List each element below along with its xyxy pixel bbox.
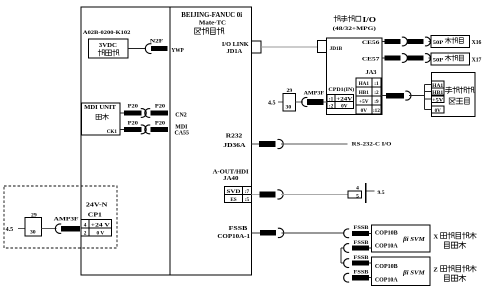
label BEIJING-FANUC 0i xyxy=(181,11,242,19)
wire JA40 run xyxy=(281,193,348,195)
wire JA3 to MPG xyxy=(409,95,425,97)
svg-text:A-OUT/HDI: A-OUT/HDI xyxy=(213,170,250,176)
port A-OUT/HDI label xyxy=(213,170,250,176)
port JA3 label xyxy=(366,70,377,76)
cable CE56 plug B xyxy=(407,39,423,44)
port FSSB label xyxy=(229,226,248,232)
wire FSSB stub xyxy=(252,232,261,234)
svg-text:HB1: HB1 xyxy=(359,90,369,96)
cable CE57 socket A xyxy=(402,54,407,63)
svg-text:P20: P20 xyxy=(128,103,139,109)
svg-text:CE56: CE56 xyxy=(362,40,380,46)
cable P20 row1 plug B xyxy=(151,111,168,116)
svg-text:CN2: CN2 xyxy=(175,113,187,119)
connector N2F plug xyxy=(151,46,168,51)
port CE56 label xyxy=(362,40,380,46)
wire 4.5 to ref box xyxy=(18,228,25,230)
wire Z-COP10B stub xyxy=(369,262,371,264)
cable JA40 plug xyxy=(260,192,276,198)
svg-text:YWP: YWP xyxy=(171,48,184,54)
cable R232 plug xyxy=(259,141,276,147)
50P breakout box X16 xyxy=(431,36,470,48)
port CPD1 pin table xyxy=(327,94,354,109)
cable CE56 socket A xyxy=(402,37,407,46)
svg-text::2: :2 xyxy=(329,103,334,109)
MPG pin 0V xyxy=(431,106,444,114)
svg-text:3VDC: 3VDC xyxy=(99,42,117,49)
cable CE57 plug A xyxy=(384,55,400,60)
label CNC system (CJK) xyxy=(195,28,224,35)
label 24V-N xyxy=(86,203,109,209)
svg-text:FSSB: FSSB xyxy=(354,256,370,261)
svg-text:+24V: +24V xyxy=(336,96,352,102)
svg-text:FSSB: FSSB xyxy=(354,241,370,246)
port R232 label xyxy=(226,133,243,139)
port I/O LINK label xyxy=(222,42,249,48)
svg-text:CPD1(IN): CPD1(IN) xyxy=(328,86,354,93)
cable JA3 plug xyxy=(386,93,404,99)
svg-text:P20: P20 xyxy=(155,120,166,126)
cable CE56 plug A xyxy=(384,39,400,44)
wire FSSB run xyxy=(282,232,345,234)
cable row1 socket arcs xyxy=(141,109,150,118)
wire JA3 stub xyxy=(381,95,386,97)
svg-text:5: 5 xyxy=(356,193,359,199)
port MDI label xyxy=(175,125,188,131)
svg-text:30: 30 xyxy=(286,104,292,110)
port JD36A label xyxy=(223,143,246,149)
svg-text:I/O: I/O xyxy=(363,17,377,24)
label 30 xyxy=(30,230,36,236)
svg-text:Mate-TC: Mate-TC xyxy=(199,20,226,27)
MPG unit box xyxy=(431,73,475,117)
label 4 xyxy=(356,186,359,192)
servo amp X box xyxy=(371,225,430,252)
svg-text:AMP3F: AMP3F xyxy=(304,90,325,96)
svg-text:50P: 50P xyxy=(433,58,444,64)
port JA3 pin table xyxy=(356,78,381,114)
wire ref box to AMP3F xyxy=(42,228,57,230)
label P20 row2 left xyxy=(128,120,139,126)
svg-text:CK1: CK1 xyxy=(107,129,117,135)
svg-text::5: :5 xyxy=(245,197,250,203)
svg-text:CA55: CA55 xyxy=(175,131,189,137)
wire X-COP10B stub xyxy=(369,232,371,234)
servo amp Z box xyxy=(371,257,430,285)
svg-text:CE57: CE57 xyxy=(362,56,380,62)
wire CE57 stub xyxy=(382,57,385,59)
label 29 xyxy=(31,212,37,218)
cable FSSB X-COP10A plug xyxy=(352,245,369,250)
svg-text:βi SVM: βi SVM xyxy=(402,270,425,277)
svg-text:I/O LINK: I/O LINK xyxy=(222,42,249,48)
cable FSSB plug (main) xyxy=(260,230,276,236)
label COP10A (X) xyxy=(375,244,399,250)
svg-text:CP1: CP1 xyxy=(88,212,102,218)
label X amp unit (CJK) xyxy=(444,242,465,249)
label CP1 xyxy=(88,212,102,218)
MPG pin +5V xyxy=(431,96,444,104)
svg-text::2: :2 xyxy=(374,90,379,96)
label COP10B (X) xyxy=(375,230,398,236)
off-sheet ref box 29/30 xyxy=(25,218,41,237)
svg-text:AMP3F: AMP3F xyxy=(54,217,80,223)
wire ref box to AMP3F (CPD1) xyxy=(296,101,304,103)
wire MDI row1 stub xyxy=(120,112,124,114)
label lithium battery (CJK) xyxy=(98,50,119,56)
connector N2F socket arc xyxy=(145,44,151,54)
svg-text::12: :12 xyxy=(373,108,380,114)
svg-text:24V-N: 24V-N xyxy=(86,203,109,209)
cable JA3 socket xyxy=(405,91,411,100)
label P20 row1 left xyxy=(128,103,139,109)
port JD1A label xyxy=(227,49,244,55)
wire battery to N2F xyxy=(128,47,146,49)
wire I/O LINK bus xyxy=(261,46,318,48)
label FSSB (X bottom) xyxy=(354,241,370,246)
label sheet ref 4.5 (power) xyxy=(6,227,14,233)
50P breakout box X17 xyxy=(431,53,470,65)
wire ref tick xyxy=(366,190,374,192)
label X-axis servo amp (CJK) xyxy=(433,232,476,240)
label N2F xyxy=(150,39,164,45)
connector JD1A square xyxy=(252,41,262,53)
svg-text:ES: ES xyxy=(230,197,236,203)
label FSSB (Z top) xyxy=(354,256,370,261)
label Z amp unit (CJK) xyxy=(444,275,465,282)
svg-text:βi SVM: βi SVM xyxy=(402,236,425,243)
port JA40 label xyxy=(223,176,238,182)
svg-text:HB1: HB1 xyxy=(432,90,443,96)
MDI unit box xyxy=(82,103,121,135)
label AMP3F (power) xyxy=(54,217,80,223)
svg-text:0V: 0V xyxy=(361,108,368,114)
svg-text:COP10B: COP10B xyxy=(375,230,398,236)
svg-text:N2F: N2F xyxy=(150,39,164,45)
svg-text:JD36A: JD36A xyxy=(223,143,246,149)
label CK1 xyxy=(107,129,117,135)
cable FSSB Z-COP10B plug xyxy=(352,261,369,266)
svg-text:COP10B: COP10B xyxy=(375,264,398,270)
svg-text:0 V: 0 V xyxy=(96,231,104,237)
cable CE57 socket B xyxy=(425,54,430,63)
cable FSSB Z-COP10B socket xyxy=(344,259,349,268)
label FSSB (Z bottom) xyxy=(354,271,370,276)
connector AMP3F plug (power) xyxy=(61,226,80,232)
port CN2 label xyxy=(175,113,187,119)
dashed power-supply region xyxy=(4,186,117,248)
svg-text:2: 2 xyxy=(84,231,87,237)
label machine interface I/O (CJK) xyxy=(334,16,376,24)
MPG pin HB1 xyxy=(431,88,444,96)
svg-text:JA3: JA3 xyxy=(366,70,377,76)
cable P20 row2 plug B xyxy=(151,127,168,132)
label Mate-TC xyxy=(199,20,226,27)
label sheet ref 4.5 (CPD1) xyxy=(268,100,276,106)
svg-text:+5V: +5V xyxy=(432,98,443,104)
wire JA40 stub xyxy=(252,193,260,195)
label 30 (CPD1) xyxy=(286,104,292,110)
port YWP label xyxy=(171,48,184,54)
svg-text:SVD: SVD xyxy=(227,189,241,195)
cable FSSB Z-COP10A socket xyxy=(344,273,349,282)
label manual pulse (CJK) xyxy=(445,87,474,94)
cable JA40 socket xyxy=(277,190,283,199)
label unit (CJK) xyxy=(96,114,108,120)
svg-text:50P: 50P xyxy=(433,40,444,46)
port CA55 label xyxy=(175,131,189,137)
label AMP3F (CPD1) xyxy=(304,90,325,96)
connector AMP3F plug (CPD1) xyxy=(307,99,324,105)
off-sheet ref box 4/5 xyxy=(348,191,362,198)
wire CE56 stub xyxy=(382,41,385,43)
label A02B-0200-K102 xyxy=(83,30,131,36)
internal divider wire xyxy=(169,7,171,275)
MPG pin HA1 xyxy=(431,81,444,89)
label COP10A (Z) xyxy=(375,278,399,284)
svg-text:COP10A: COP10A xyxy=(375,278,399,284)
label P20 row1 right xyxy=(155,103,166,109)
wire CE57 to breakout xyxy=(429,57,431,59)
svg-text:+24 V: +24 V xyxy=(91,222,110,228)
MPG pin bus wire xyxy=(425,85,432,110)
port CPD1(IN) label xyxy=(328,86,354,93)
svg-text:9.5: 9.5 xyxy=(378,190,385,196)
label P20 row2 right xyxy=(155,120,166,126)
svg-text:HA1: HA1 xyxy=(359,81,370,87)
svg-text:4.5: 4.5 xyxy=(268,100,276,106)
wire MDI row2 stub xyxy=(120,128,124,130)
cable FSSB socket (main) xyxy=(278,228,284,237)
label sheet ref 9.5 xyxy=(378,190,385,196)
cable P20 row1 plug A xyxy=(124,111,141,116)
svg-text:P20: P20 xyxy=(128,120,139,126)
svg-text:4: 4 xyxy=(84,222,87,228)
label RS-232-C I/O xyxy=(352,142,392,148)
cable R232 socket xyxy=(278,139,284,148)
wire R232 stub xyxy=(252,143,260,145)
svg-text:0V: 0V xyxy=(341,103,348,109)
svg-text:COP10A-1: COP10A-1 xyxy=(217,234,250,240)
wire 4.5 to ref box (CPD1) xyxy=(278,101,283,103)
wire Z-COP10A stub xyxy=(369,277,371,279)
svg-text:R232: R232 xyxy=(226,133,243,139)
svg-text:BEIJING-FANUC 0i: BEIJING-FANUC 0i xyxy=(181,11,242,19)
battery BAT1 box xyxy=(89,39,129,58)
label X17 xyxy=(472,58,482,64)
cable FSSB X-COP10B plug xyxy=(352,231,369,236)
port COP10A-1 label xyxy=(217,234,250,240)
cable CE57 plug B xyxy=(407,55,423,60)
svg-text:X: X xyxy=(433,233,438,240)
wire CE56 to breakout xyxy=(429,41,431,43)
svg-text::1: :1 xyxy=(329,96,334,102)
svg-text:0V: 0V xyxy=(435,108,442,114)
svg-text:29: 29 xyxy=(287,88,293,94)
label beta-i SVM (Z) xyxy=(402,270,425,277)
svg-text:4: 4 xyxy=(356,186,359,192)
I/O module box xyxy=(327,38,382,115)
cable FSSB X-COP10A socket xyxy=(344,244,349,253)
svg-text:X17: X17 xyxy=(472,58,482,64)
cable P20 row2 plug A xyxy=(124,127,141,132)
svg-text:FSSB: FSSB xyxy=(354,226,370,231)
cable FSSB Z-COP10A plug xyxy=(352,275,369,280)
label FSSB (X top) xyxy=(354,226,370,231)
svg-text:COP10A: COP10A xyxy=(375,244,399,250)
off-sheet ref box 29/30 (CPD1) xyxy=(283,94,296,111)
connector AMP3F socket arc (power) xyxy=(55,224,61,233)
CNC main unit enclosure xyxy=(81,7,252,275)
svg-text:FSSB: FSSB xyxy=(229,226,248,232)
port CE57 label xyxy=(362,56,380,62)
cable CE56 socket B xyxy=(425,37,430,46)
port CP1 pin table xyxy=(81,219,111,236)
wire FSSB daisy chain xyxy=(341,248,344,263)
wire X-COP10A stub xyxy=(369,247,371,249)
label COP10B (Z) xyxy=(375,264,398,270)
cable row2 socket arcs xyxy=(141,125,150,134)
svg-text:RS-232-C I/O: RS-232-C I/O xyxy=(352,142,392,148)
label Z-axis servo amp (CJK) xyxy=(433,265,476,273)
svg-text:(48/32+MPG): (48/32+MPG) xyxy=(333,25,376,32)
connector AMP3F socket arc (CPD1) xyxy=(302,98,308,107)
label MDI UNIT xyxy=(84,105,116,111)
svg-text:JA40: JA40 xyxy=(223,176,238,182)
svg-text:30: 30 xyxy=(30,230,36,236)
svg-text:X16: X16 xyxy=(472,40,482,46)
svg-text:+5V: +5V xyxy=(359,99,369,105)
label 3VDC xyxy=(99,42,117,49)
port JA40 pin table xyxy=(225,187,252,203)
svg-text::9: :9 xyxy=(374,99,379,105)
svg-text:MDI UNIT: MDI UNIT xyxy=(84,105,116,111)
label (48/32+MPG) xyxy=(333,25,376,32)
svg-text:4.5: 4.5 xyxy=(6,227,14,233)
svg-text:P20: P20 xyxy=(155,103,166,109)
label generator (CJK) xyxy=(449,98,469,104)
svg-text:JD1A: JD1A xyxy=(227,49,244,55)
label 29 (CPD1) xyxy=(287,88,293,94)
label beta-i SVM (X) xyxy=(402,236,425,243)
connector JD1B square xyxy=(318,41,327,53)
svg-text:Z: Z xyxy=(433,266,438,273)
svg-text::7: :7 xyxy=(245,189,250,195)
svg-text:29: 29 xyxy=(31,212,37,218)
off-sheet ref bar xyxy=(365,183,367,203)
svg-text::1: :1 xyxy=(374,81,379,87)
cable FSSB X-COP10B socket xyxy=(344,229,349,238)
wire AMP3F to CPD1 xyxy=(324,101,327,103)
svg-text:JD1B: JD1B xyxy=(330,46,343,52)
wire RS-232 run xyxy=(281,143,347,145)
port JD1B label xyxy=(330,46,343,52)
label X16 xyxy=(472,40,482,46)
label 5 xyxy=(356,193,359,199)
svg-text:FSSB: FSSB xyxy=(354,271,370,276)
svg-text:A02B-0200-K102: A02B-0200-K102 xyxy=(83,30,131,36)
